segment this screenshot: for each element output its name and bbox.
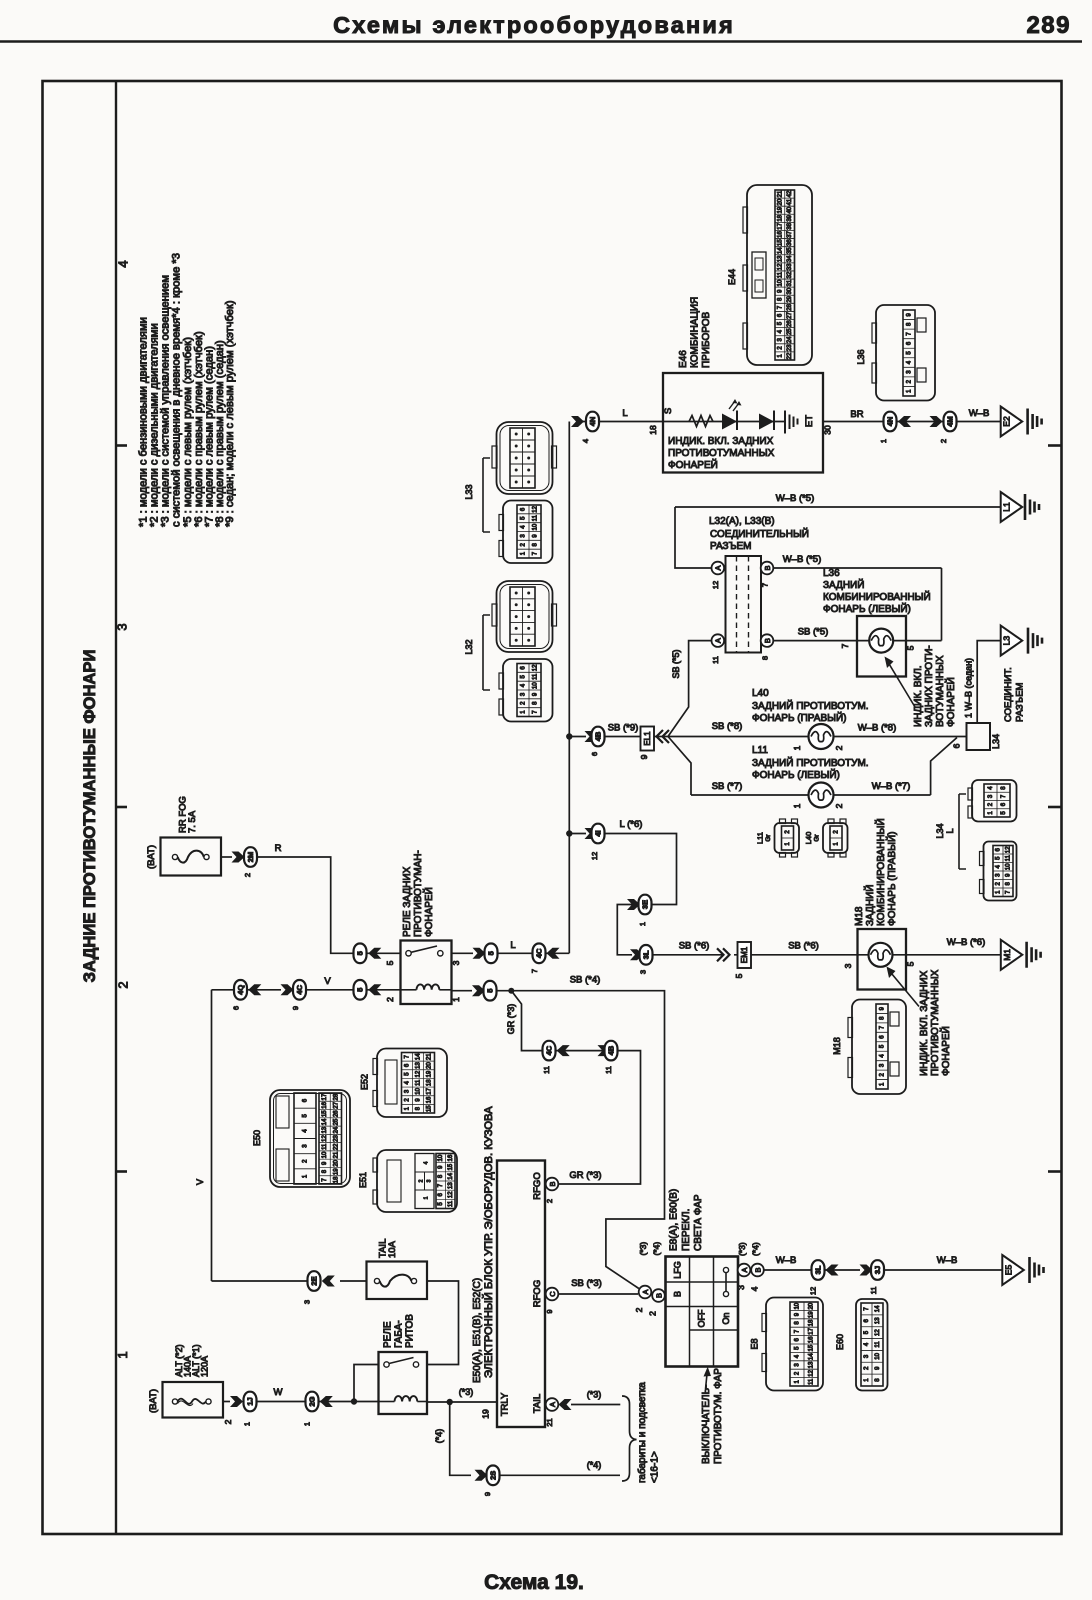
svg-text:11: 11: [1006, 854, 1012, 861]
svg-text:W: W: [274, 1387, 283, 1398]
svg-text:E50(A), E51(B), E52(C): E50(A), E51(B), E52(C): [472, 1278, 483, 1383]
svg-text:1: 1: [115, 1351, 130, 1358]
svg-text:13: 13: [809, 1361, 815, 1368]
svg-text:RFGO: RFGO: [532, 1172, 543, 1199]
svg-text:32: 32: [787, 271, 793, 278]
svg-text:31: 31: [787, 279, 793, 286]
svg-text:(BAT): (BAT): [148, 1389, 159, 1413]
svg-text:16: 16: [427, 1096, 433, 1103]
svg-text:SB (*6): SB (*6): [679, 941, 710, 952]
svg-text:15: 15: [809, 1344, 815, 1351]
svg-text:12: 12: [322, 1135, 328, 1142]
svg-text:12: 12: [533, 664, 539, 671]
svg-text:2: 2: [834, 803, 844, 808]
svg-text:12: 12: [809, 1369, 815, 1376]
svg-text:ПРОТИВОТУМ. ФАР: ПРОТИВОТУМ. ФАР: [713, 1368, 724, 1464]
svg-text:10: 10: [875, 1352, 881, 1359]
svg-text:3: 3: [843, 963, 853, 968]
svg-text:2: 2: [385, 997, 395, 1002]
svg-text:3E: 3E: [641, 900, 650, 909]
svg-text:28: 28: [333, 1093, 339, 1100]
svg-text:18: 18: [648, 425, 658, 435]
svg-text:1: 1: [879, 439, 888, 443]
svg-text:11: 11: [542, 1066, 551, 1074]
svg-text:20: 20: [777, 198, 783, 205]
svg-text:(BAT): (BAT): [146, 845, 157, 869]
svg-text:L33: L33: [464, 484, 474, 499]
svg-text:2: 2: [116, 981, 131, 988]
svg-text:17: 17: [427, 1087, 433, 1094]
svg-text:17: 17: [322, 1093, 328, 1100]
svg-text:24: 24: [787, 336, 793, 343]
svg-text:6: 6: [952, 743, 962, 748]
svg-text:3: 3: [303, 1300, 312, 1304]
svg-text:11: 11: [448, 1200, 454, 1207]
svg-text:R: R: [275, 843, 282, 854]
svg-text:5: 5: [356, 951, 365, 955]
svg-text:W–B: W–B: [969, 408, 990, 419]
svg-text:14: 14: [416, 1053, 422, 1060]
svg-text:L: L: [510, 940, 515, 951]
svg-text:GR (*3): GR (*3): [506, 1004, 516, 1035]
svg-text:7: 7: [530, 969, 539, 973]
svg-text:2E: 2E: [310, 1276, 319, 1285]
svg-text:*9 : седан; модели с левым рул: *9 : седан; модели с левым рулем (хэтчбе…: [224, 300, 236, 527]
svg-text:L11: L11: [752, 745, 768, 756]
svg-text:SB (*5): SB (*5): [671, 649, 681, 678]
svg-text:ПРИБОРОВ: ПРИБОРОВ: [701, 311, 712, 368]
svg-text:4B: 4B: [594, 731, 603, 741]
svg-text:2S: 2S: [489, 1471, 498, 1480]
svg-text:M18: M18: [854, 906, 865, 926]
svg-text:СОЕДИНИТ.: СОЕДИНИТ.: [1003, 667, 1014, 722]
svg-text:33: 33: [787, 263, 793, 270]
svg-text:E8(A), E60(B): E8(A), E60(B): [669, 1189, 680, 1251]
svg-text:18: 18: [427, 1079, 433, 1086]
svg-text:9: 9: [639, 754, 649, 759]
svg-text:14: 14: [875, 1305, 881, 1312]
svg-text:2: 2: [545, 1199, 554, 1203]
svg-text:39: 39: [787, 214, 793, 221]
svg-text:11: 11: [533, 673, 539, 680]
svg-text:1: 1: [792, 803, 802, 808]
svg-text:Схемы электрооборудования: Схемы электрооборудования: [333, 12, 735, 38]
svg-text:24: 24: [333, 1126, 339, 1133]
svg-text:L32: L32: [464, 639, 474, 654]
svg-text:26: 26: [787, 320, 793, 327]
svg-text:12: 12: [416, 1070, 422, 1077]
svg-text:15: 15: [322, 1110, 328, 1117]
svg-text:1: 1: [424, 1196, 430, 1199]
svg-text:23: 23: [333, 1135, 339, 1142]
svg-text:12: 12: [777, 263, 783, 270]
svg-text:16: 16: [448, 1154, 454, 1161]
svg-text:4: 4: [424, 1161, 430, 1164]
svg-text:2: 2: [223, 1419, 233, 1424]
svg-text:(*4): (*4): [652, 1242, 662, 1256]
svg-text:2: 2: [419, 1179, 425, 1182]
svg-text:A: A: [714, 638, 723, 643]
svg-text:19: 19: [481, 1409, 491, 1419]
svg-text:ИНДИК. ВКЛ. ЗАДНИХ: ИНДИК. ВКЛ. ЗАДНИХ: [668, 436, 774, 447]
svg-text:4B: 4B: [607, 1045, 616, 1055]
svg-text:19: 19: [333, 1168, 339, 1175]
svg-text:3: 3: [427, 1179, 433, 1182]
svg-text:SB (*4): SB (*4): [570, 975, 601, 986]
svg-text:18: 18: [777, 214, 783, 221]
svg-text:W–B (*5): W–B (*5): [776, 493, 815, 504]
svg-text:15: 15: [777, 239, 783, 246]
svg-text:ВЫКЛЮЧАТЕЛЬ-: ВЫКЛЮЧАТЕЛЬ-: [701, 1385, 712, 1464]
svg-text:SB (*8): SB (*8): [712, 721, 743, 732]
svg-text:5: 5: [734, 973, 744, 978]
svg-text:12: 12: [1006, 846, 1012, 853]
svg-text:ET: ET: [804, 415, 815, 427]
svg-text:L11: L11: [756, 832, 765, 844]
svg-text:РАЗЪЕМ: РАЗЪЕМ: [1015, 682, 1026, 722]
svg-text:4M: 4M: [946, 416, 955, 426]
svg-text:13: 13: [416, 1062, 422, 1069]
svg-text:1 W–B (седан): 1 W–B (седан): [964, 658, 974, 718]
svg-text:ИНДИК. ВКЛ.: ИНДИК. ВКЛ.: [913, 665, 924, 727]
svg-text:30: 30: [823, 425, 833, 435]
svg-text:(*3): (*3): [737, 1242, 747, 1256]
svg-text:42: 42: [787, 190, 793, 197]
svg-text:L40: L40: [804, 832, 813, 845]
svg-text:ФОНАРЕЙ: ФОНАРЕЙ: [939, 1026, 952, 1076]
svg-text:10: 10: [533, 682, 539, 689]
svg-text:A: A: [740, 1267, 749, 1272]
svg-text:A: A: [548, 1402, 557, 1407]
svg-text:C: C: [548, 1291, 557, 1297]
svg-text:ЗАДНИЙ: ЗАДНИЙ: [823, 578, 864, 591]
svg-text:1J: 1J: [246, 1397, 255, 1405]
svg-text:V: V: [195, 1179, 205, 1185]
svg-text:10: 10: [795, 1302, 801, 1309]
svg-text:1: 1: [451, 997, 461, 1002]
svg-text:L: L: [945, 828, 955, 833]
svg-text:17: 17: [809, 1327, 815, 1334]
svg-text:с системой освещения в дневное: с системой освещения в дневное время*4 :…: [171, 253, 183, 527]
svg-text:<16-1>: <16-1>: [650, 1451, 661, 1483]
svg-text:L40: L40: [752, 688, 769, 699]
svg-text:ЭЛЕКТРОННЫЙ БЛОК УПР. Э/ОБОРУД: ЭЛЕКТРОННЫЙ БЛОК УПР. Э/ОБОРУДОВ. КУЗОВА: [482, 1106, 495, 1378]
svg-text:15: 15: [448, 1163, 454, 1170]
svg-text:16: 16: [322, 1101, 328, 1108]
svg-text:1: 1: [638, 922, 647, 926]
svg-text:3: 3: [736, 1285, 746, 1290]
svg-text:5: 5: [486, 989, 495, 993]
svg-text:35: 35: [787, 247, 793, 254]
svg-text:M18: M18: [832, 1037, 842, 1055]
svg-text:SB (*6): SB (*6): [788, 941, 819, 952]
svg-text:5: 5: [385, 960, 395, 965]
svg-text:Gr: Gr: [765, 834, 772, 842]
svg-text:3: 3: [451, 960, 461, 965]
svg-text:30: 30: [787, 287, 793, 294]
svg-text:27: 27: [333, 1101, 339, 1108]
svg-text:E2: E2: [1002, 416, 1012, 427]
svg-text:11: 11: [809, 1378, 815, 1385]
svg-text:A: A: [714, 565, 723, 570]
svg-text:S: S: [663, 408, 674, 414]
svg-text:V: V: [324, 976, 331, 987]
svg-text:габариты и подсветка: габариты и подсветка: [636, 1382, 648, 1483]
svg-text:4Q: 4Q: [236, 985, 245, 995]
svg-text:1: 1: [792, 745, 802, 750]
svg-text:13: 13: [448, 1182, 454, 1189]
svg-text:L (*6): L (*6): [620, 819, 643, 830]
svg-text:(*3): (*3): [638, 1242, 648, 1256]
svg-text:22: 22: [333, 1143, 339, 1150]
svg-text:TAIL: TAIL: [532, 1394, 543, 1413]
svg-text:7. 5A: 7. 5A: [187, 810, 198, 833]
svg-text:L1: L1: [1002, 502, 1012, 512]
svg-text:4: 4: [750, 1286, 760, 1291]
svg-text:21: 21: [777, 190, 783, 197]
svg-text:2: 2: [648, 1311, 658, 1316]
svg-text:РИТОВ: РИТОВ: [405, 1314, 416, 1348]
svg-text:8: 8: [761, 656, 770, 660]
svg-text:15: 15: [427, 1105, 433, 1112]
svg-text:10: 10: [777, 279, 783, 286]
svg-text:4C: 4C: [535, 948, 544, 958]
svg-text:TRLY: TRLY: [500, 1392, 511, 1416]
svg-text:W–B: W–B: [776, 1255, 797, 1266]
svg-text:ПЕРЕКЛ.: ПЕРЕКЛ.: [681, 1209, 692, 1251]
svg-text:5: 5: [906, 645, 916, 650]
svg-text:ИНДИК. ВКЛ. ЗАДНИХ: ИНДИК. ВКЛ. ЗАДНИХ: [919, 970, 930, 1076]
svg-text:14: 14: [809, 1353, 815, 1360]
svg-text:6: 6: [590, 752, 599, 756]
svg-text:КОМБИНИРОВАННЫЙ: КОМБИНИРОВАННЫЙ: [823, 590, 931, 603]
svg-text:ФОНАРЕЙ: ФОНАРЕЙ: [944, 677, 957, 727]
svg-text:OFF: OFF: [697, 1309, 707, 1327]
svg-text:ВОТУМАННЫХ: ВОТУМАННЫХ: [935, 655, 946, 727]
svg-text:L3: L3: [1002, 636, 1012, 646]
svg-text:36: 36: [787, 239, 793, 246]
svg-text:11: 11: [533, 514, 539, 521]
svg-text:19: 19: [427, 1070, 433, 1077]
svg-text:ФОНАРЬ (ПРАВЫЙ): ФОНАРЬ (ПРАВЫЙ): [885, 831, 898, 926]
svg-text:16: 16: [777, 231, 783, 238]
svg-text:10: 10: [322, 1151, 328, 1158]
svg-text:14: 14: [777, 247, 783, 254]
svg-text:РЕЛЕ: РЕЛЕ: [383, 1321, 394, 1348]
svg-text:B: B: [654, 1293, 663, 1298]
svg-text:W–B (*5): W–B (*5): [783, 554, 822, 565]
svg-text:5: 5: [356, 988, 365, 992]
svg-text:ГАБА-: ГАБА-: [394, 1320, 405, 1348]
svg-text:23: 23: [787, 344, 793, 351]
svg-text:(*4): (*4): [751, 1242, 761, 1256]
svg-text:L: L: [622, 408, 627, 419]
svg-text:КОМБИНИРОВАННЫЙ: КОМБИНИРОВАННЫЙ: [874, 818, 887, 926]
svg-text:16: 16: [809, 1336, 815, 1343]
svg-text:L32(A), L33(B): L32(A), L33(B): [709, 516, 775, 527]
svg-text:ФОНАРЕЙ: ФОНАРЕЙ: [422, 887, 435, 937]
svg-text:SB (*5): SB (*5): [798, 627, 829, 638]
svg-text:B: B: [753, 1267, 762, 1272]
svg-text:ПРОТИВОТУМАН-: ПРОТИВОТУМАН-: [413, 850, 424, 937]
svg-text:СВЕТА ФАР: СВЕТА ФАР: [693, 1194, 704, 1251]
svg-text:(*4): (*4): [587, 1460, 602, 1470]
svg-text:14: 14: [448, 1172, 454, 1179]
svg-text:7: 7: [840, 643, 850, 648]
svg-text:СОЕДИНИТЕЛЬНЫЙ: СОЕДИНИТЕЛЬНЫЙ: [710, 527, 809, 540]
svg-text:5: 5: [906, 961, 916, 966]
svg-text:13: 13: [777, 255, 783, 262]
svg-text:2G: 2G: [308, 1396, 317, 1406]
svg-text:289: 289: [1026, 12, 1071, 39]
svg-text:ПРОТИВОТУМАННЫХ: ПРОТИВОТУМАННЫХ: [930, 969, 941, 1076]
svg-text:12: 12: [809, 1287, 818, 1295]
svg-text:SB (*9): SB (*9): [608, 723, 639, 734]
svg-text:Gr: Gr: [814, 834, 821, 842]
svg-text:20: 20: [333, 1159, 339, 1166]
svg-text:КОМБИНАЦИЯ: КОМБИНАЦИЯ: [690, 297, 701, 368]
svg-text:4N: 4N: [886, 417, 895, 427]
svg-text:2: 2: [834, 745, 844, 750]
svg-text:28: 28: [787, 303, 793, 310]
svg-text:120A: 120A: [200, 1356, 210, 1377]
svg-text:38: 38: [787, 222, 793, 229]
svg-text:ФОНАРЬ (ПРАВЫЙ): ФОНАРЬ (ПРАВЫЙ): [752, 711, 847, 724]
svg-text:РАЗЪЕМ: РАЗЪЕМ: [710, 541, 752, 552]
svg-text:17: 17: [777, 222, 783, 229]
svg-text:Схема 19.: Схема 19.: [484, 1571, 584, 1594]
svg-text:E51: E51: [358, 1172, 368, 1188]
svg-text:9: 9: [545, 1309, 554, 1313]
svg-text:11: 11: [416, 1079, 422, 1086]
svg-text:A: A: [641, 1289, 650, 1294]
svg-text:ФОНАРЬ (ЛЕВЫЙ): ФОНАРЬ (ЛЕВЫЙ): [823, 602, 911, 615]
svg-text:18: 18: [809, 1319, 815, 1326]
svg-text:25: 25: [787, 328, 793, 335]
svg-text:27: 27: [787, 312, 793, 319]
svg-text:41: 41: [787, 198, 793, 205]
svg-text:26: 26: [333, 1110, 339, 1117]
svg-text:M1: M1: [1002, 949, 1012, 961]
svg-text:RFOG: RFOG: [532, 1280, 543, 1307]
svg-text:L34: L34: [935, 823, 945, 838]
svg-text:29: 29: [787, 295, 793, 302]
svg-text:(*3): (*3): [587, 1390, 602, 1400]
svg-text:40: 40: [787, 206, 793, 213]
svg-text:37: 37: [787, 231, 793, 238]
svg-text:11: 11: [604, 1066, 613, 1074]
svg-text:E60: E60: [835, 1334, 845, 1350]
svg-text:W–B (*8): W–B (*8): [858, 723, 897, 734]
svg-text:11: 11: [322, 1143, 328, 1150]
svg-text:4I: 4I: [594, 830, 603, 836]
svg-text:3: 3: [639, 970, 648, 974]
svg-text:5: 5: [487, 951, 496, 955]
svg-text:ПРОТИВОТУМАННЫХ: ПРОТИВОТУМАННЫХ: [668, 448, 775, 459]
svg-text:E46: E46: [678, 350, 689, 368]
svg-text:1: 1: [243, 1422, 252, 1426]
svg-text:On: On: [721, 1312, 731, 1324]
svg-text:ЗАДНИЙ ПРОТИВОТУМ.: ЗАДНИЙ ПРОТИВОТУМ.: [752, 756, 869, 769]
svg-text:B: B: [763, 565, 772, 570]
svg-text:B: B: [548, 1181, 557, 1186]
svg-text:L36: L36: [823, 568, 840, 579]
svg-text:E52: E52: [360, 1074, 370, 1090]
svg-text:3L: 3L: [642, 950, 651, 959]
svg-text:12: 12: [590, 852, 599, 860]
svg-text:E44: E44: [727, 269, 737, 285]
svg-text:19: 19: [777, 206, 783, 213]
svg-text:ФОНАРЕЙ: ФОНАРЕЙ: [668, 458, 718, 471]
svg-text:14: 14: [322, 1118, 328, 1125]
svg-text:4: 4: [581, 439, 590, 443]
svg-text:ЗАДНИЙ ПРОТИВОТУМ.: ЗАДНИЙ ПРОТИВОТУМ.: [752, 699, 869, 712]
svg-text:ЗАДНИЕ ПРОТИВОТУМАННЫЕ ФОНАРИ: ЗАДНИЕ ПРОТИВОТУМАННЫЕ ФОНАРИ: [80, 650, 99, 983]
svg-text:20: 20: [809, 1302, 815, 1309]
svg-text:2: 2: [939, 439, 948, 443]
svg-text:13: 13: [875, 1317, 881, 1324]
svg-text:L34: L34: [991, 734, 1001, 749]
svg-text:21: 21: [427, 1053, 433, 1060]
svg-text:(*4): (*4): [434, 1429, 444, 1444]
svg-text:4C: 4C: [295, 984, 304, 994]
svg-text:12: 12: [711, 581, 720, 589]
svg-text:E8: E8: [750, 1338, 760, 1349]
svg-text:ФОНАРЬ (ЛЕВЫЙ): ФОНАРЬ (ЛЕВЫЙ): [752, 768, 840, 781]
svg-text:LFG: LFG: [673, 1261, 683, 1279]
svg-text:12: 12: [533, 505, 539, 512]
svg-text:1: 1: [303, 1422, 312, 1426]
svg-text:9: 9: [291, 1006, 300, 1010]
svg-text:3J: 3J: [873, 1266, 882, 1274]
svg-text:4C: 4C: [545, 1045, 554, 1055]
svg-text:2: 2: [634, 1307, 644, 1312]
svg-text:GR (*3): GR (*3): [569, 1170, 601, 1181]
svg-text:EM1: EM1: [740, 946, 749, 963]
svg-text:W–B: W–B: [937, 1255, 958, 1266]
svg-text:L36: L36: [856, 349, 866, 364]
svg-text:12: 12: [875, 1329, 881, 1336]
svg-text:21: 21: [333, 1151, 339, 1158]
svg-text:E5: E5: [1003, 1265, 1013, 1276]
svg-text:34: 34: [787, 255, 793, 262]
svg-text:B: B: [763, 638, 772, 643]
svg-text:11: 11: [869, 1287, 878, 1295]
svg-text:19: 19: [809, 1311, 815, 1318]
svg-text:B: B: [673, 1291, 683, 1297]
svg-text:3L: 3L: [814, 1265, 823, 1274]
svg-text:10: 10: [416, 1087, 422, 1094]
svg-text:9: 9: [483, 1492, 492, 1496]
svg-text:11: 11: [875, 1341, 881, 1348]
svg-text:4: 4: [116, 260, 131, 267]
svg-text:EL1: EL1: [643, 731, 652, 746]
svg-text:ЗАДНИЙ: ЗАДНИЙ: [863, 885, 876, 926]
svg-text:10: 10: [438, 1154, 444, 1161]
svg-text:10: 10: [1006, 863, 1012, 870]
svg-text:18: 18: [333, 1176, 339, 1183]
svg-text:10: 10: [533, 523, 539, 530]
svg-text:22: 22: [787, 352, 793, 359]
svg-text:21: 21: [545, 1418, 554, 1426]
svg-text:W–B (*6): W–B (*6): [947, 937, 986, 948]
svg-text:ЗАДНИХ ПРОТИ-: ЗАДНИХ ПРОТИ-: [924, 645, 935, 727]
svg-text:РЕЛЕ ЗАДНИХ: РЕЛЕ ЗАДНИХ: [402, 866, 413, 937]
svg-text:2M: 2M: [246, 852, 255, 862]
svg-text:25: 25: [333, 1118, 339, 1125]
svg-text:11: 11: [777, 271, 783, 278]
svg-text:SB (*7): SB (*7): [712, 781, 743, 792]
